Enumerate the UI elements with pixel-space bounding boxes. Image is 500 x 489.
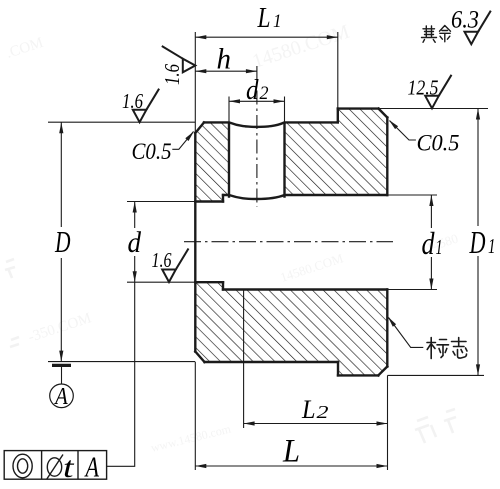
chamfer flange top-right C0.5 xyxy=(379,109,388,118)
flange right face (upper part) xyxy=(386,118,388,196)
concentricity symbol xyxy=(13,454,32,478)
flange top edge xyxy=(338,107,379,109)
svg-text:1.6: 1.6 xyxy=(122,89,143,113)
志: 士 part xyxy=(452,338,467,347)
L1 arrows xyxy=(195,35,206,39)
flange left face bottom xyxy=(337,362,339,375)
bore step bottom xyxy=(222,282,224,289)
D1 dimension line (gap for label) xyxy=(477,109,479,227)
arrowheads xyxy=(59,35,480,468)
datum circle xyxy=(50,384,74,408)
bore d1 bottom edge xyxy=(223,288,387,290)
svg-text:1.6: 1.6 xyxy=(152,248,172,272)
L2 arrows xyxy=(244,421,255,425)
tolerance Øt : slashed circle xyxy=(47,458,61,476)
svg-text:C0.5: C0.5 xyxy=(417,131,460,156)
L1 extension line left (also h extension) xyxy=(194,32,196,135)
C0.5 leader left xyxy=(172,132,193,150)
flange left face top xyxy=(337,109,339,123)
label 其余 (hand-drawn) xyxy=(422,26,451,43)
chamfer top-left C0.5 xyxy=(195,122,204,133)
svg-text:L: L xyxy=(257,3,271,34)
flange right face (lower part) xyxy=(386,290,388,367)
bore d1 top edge with oil-hole dip xyxy=(223,195,387,199)
L arrows xyxy=(195,464,206,468)
marking leader arrow xyxy=(388,317,396,327)
D top extension line xyxy=(48,121,195,123)
标: 木 radical xyxy=(427,338,436,359)
bore step top xyxy=(222,195,224,202)
d arrows xyxy=(133,202,137,213)
hatch lower region xyxy=(195,282,387,375)
svg-text:d: d xyxy=(128,226,142,259)
L1 dimension line xyxy=(195,36,337,38)
main horizontal centerline xyxy=(184,241,393,243)
L2 / L shared right extension line xyxy=(387,375,389,470)
D bottom extension line xyxy=(48,361,195,363)
svg-text:12.5: 12.5 xyxy=(408,76,439,100)
svg-text:1: 1 xyxy=(436,235,443,259)
svg-text:h: h xyxy=(217,43,232,76)
svg-text:D: D xyxy=(469,224,486,260)
svg-text:C0.5: C0.5 xyxy=(132,139,172,164)
C0.5 leader right xyxy=(390,121,416,140)
L dimension line xyxy=(195,465,387,467)
svg-text:1: 1 xyxy=(488,234,496,258)
svg-text:6.3: 6.3 xyxy=(451,7,479,34)
svg-text:1: 1 xyxy=(273,11,282,32)
datum stem xyxy=(61,367,63,384)
d1 dimension line (gap for label) xyxy=(430,195,432,228)
h dimension line xyxy=(195,70,257,72)
label 标志 (hand-drawn) xyxy=(427,338,467,359)
d extension lines xyxy=(127,201,195,203)
roughness 6.3 top right (其余) xyxy=(465,11,491,45)
svg-text:L: L xyxy=(301,395,315,424)
标: 示 part xyxy=(437,340,449,358)
L left extension line xyxy=(194,362,196,470)
svg-text:D: D xyxy=(54,224,70,259)
d dimension line + leader down to GD&T frame (gap for label) xyxy=(134,202,136,229)
L2 dimension line xyxy=(244,423,388,425)
datum bar xyxy=(52,364,71,367)
body left face xyxy=(194,133,196,352)
L1 extension line right xyxy=(337,32,339,109)
余 xyxy=(440,26,451,42)
body bottom edge xyxy=(205,361,339,363)
roughness 12.5 on D1 top extension xyxy=(425,75,451,109)
C0.5 left leader arrow xyxy=(185,131,194,141)
C0.5 right leader arrow xyxy=(389,120,398,129)
roughness 1.6 on L1 extension (rotated, tip right) xyxy=(162,46,196,72)
oil hole d2 right edge xyxy=(283,125,285,197)
svg-text:1.6: 1.6 xyxy=(160,64,184,85)
body top edge with hole-intersection dip xyxy=(204,122,338,127)
svg-text:L: L xyxy=(282,434,300,470)
d2 arrows xyxy=(229,99,240,103)
志: 心 part xyxy=(453,348,467,358)
counterbore d bottom edge xyxy=(195,281,223,283)
roughness 1.6 on d lower extension xyxy=(162,249,188,283)
svg-text:2: 2 xyxy=(317,402,329,422)
counterbore d top edge xyxy=(195,200,223,202)
oil hole vertical centerline xyxy=(256,66,258,207)
d2 dimension line xyxy=(229,100,285,102)
svg-text:2: 2 xyxy=(260,83,269,104)
D dimension line (gap for label) xyxy=(60,122,62,227)
d1 extension lines xyxy=(387,194,437,196)
hatch upper-right region xyxy=(285,109,388,195)
D1 extension lines xyxy=(379,108,489,110)
svg-text:d: d xyxy=(422,225,436,261)
hatch upper-left region xyxy=(195,122,229,201)
其 xyxy=(422,26,437,42)
d1 arrows xyxy=(429,195,433,206)
h arrows xyxy=(195,69,206,73)
svg-text:A: A xyxy=(54,384,68,410)
svg-text:d: d xyxy=(246,75,259,106)
chamfer flange bottom-right xyxy=(378,367,387,376)
D1 arrows xyxy=(476,109,480,120)
L2 extension line left (through the part) xyxy=(243,290,245,429)
oil hole d2 left edge xyxy=(228,125,230,197)
flange bottom edge xyxy=(338,374,378,376)
D arrows xyxy=(59,122,63,133)
svg-text:A: A xyxy=(84,452,99,484)
roughness 1.6 on D top extension xyxy=(133,89,159,123)
marking leader (标志) xyxy=(389,318,424,348)
d2 extension lines xyxy=(228,97,230,124)
chamfer bottom-left xyxy=(195,352,204,363)
svg-text:t: t xyxy=(63,451,74,484)
